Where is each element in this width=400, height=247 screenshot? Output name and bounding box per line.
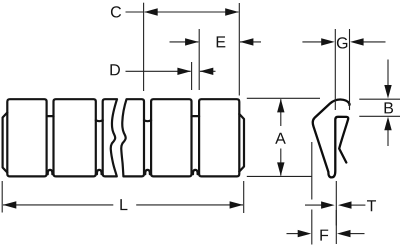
label G: [337, 37, 347, 48]
block 1: [7, 99, 46, 176]
B: [359, 98, 400, 100]
E: [170, 41, 199, 43]
left lip: [3, 113, 8, 173]
block 5: [151, 99, 191, 176]
C extension lines: [143, 3, 145, 91]
label B: [385, 102, 394, 113]
label F: [320, 230, 328, 241]
slit 3 hinge web: [144, 170, 151, 174]
A: [247, 97, 320, 99]
B arrows: [384, 85, 391, 99]
slit 1 hinge web: [47, 170, 54, 174]
C dim line: [145, 11, 239, 13]
E arrows: [185, 38, 199, 45]
slit 2 hinge web: [96, 170, 103, 174]
T: [335, 181, 337, 226]
label L: [120, 199, 127, 210]
cross-section profile: [313, 99, 350, 177]
slit 2 tie: [96, 120, 103, 121]
T arrows: [321, 201, 335, 208]
F arrows: [298, 230, 312, 237]
right lip: [239, 114, 244, 172]
slit 4 tie: [192, 115, 200, 117]
slit 1 tie: [47, 115, 54, 117]
slit 4 hinge web: [192, 170, 200, 174]
slit 3 tie: [144, 120, 151, 121]
label E: [217, 36, 226, 47]
block 2: [54, 99, 96, 176]
L: [1, 181, 3, 213]
G arrows: [321, 38, 335, 45]
block 6: [199, 99, 239, 176]
A arrows: [277, 99, 284, 113]
F: [311, 142, 313, 200]
block 3 (ends at break): [103, 99, 117, 176]
block 4 (starts at break): [121, 99, 144, 176]
L arrows: [3, 201, 16, 208]
D leader/dim: [126, 70, 191, 72]
D arrows: [177, 68, 191, 75]
label D: [110, 64, 119, 75]
label A: [275, 133, 286, 144]
label T: [367, 200, 376, 211]
G: [334, 29, 336, 110]
C arrows: [144, 8, 158, 15]
C leader: [126, 11, 144, 13]
label C: [111, 6, 121, 17]
